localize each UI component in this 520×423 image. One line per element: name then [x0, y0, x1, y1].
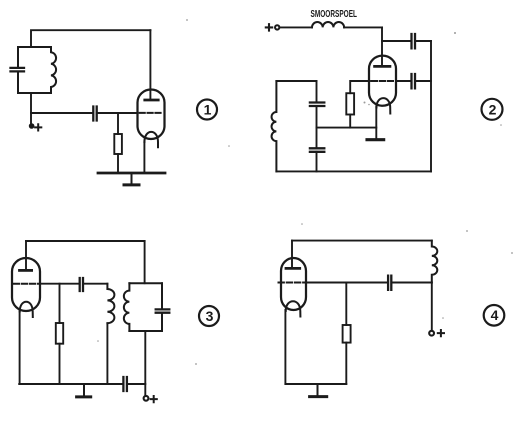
- wire: grid resistor bottom lead: [345, 343, 347, 384]
- series capacitor C9 plates: [123, 377, 127, 391]
- wire: capacitor to primary coil: [83, 283, 107, 285]
- wire: cathode lead to bottom rail: [284, 310, 286, 384]
- anode plate bar V1: [145, 99, 158, 102]
- tank right side upper: [316, 81, 318, 102]
- wire: grid to coupling capacitor: [306, 282, 388, 284]
- ground symbol (circuit 3): [83, 384, 85, 396]
- tank bottom edge: [18, 92, 51, 94]
- wire: terminal to choke: [279, 26, 312, 28]
- grid resistor R3: [56, 323, 63, 344]
- wire: tank bottom feed to terminal: [144, 331, 146, 395]
- tank capacitor C8 plates: [156, 309, 170, 312]
- wire: grid to coupling capacitor: [40, 283, 79, 285]
- plus sign: [35, 124, 41, 130]
- cathode arc V1: [144, 132, 158, 147]
- wire: cathode lead to bottom rail: [19, 311, 21, 385]
- grid resistor R2: [346, 93, 354, 114]
- svg-text:3: 3: [206, 308, 214, 324]
- wire: anode lead V2: [381, 27, 383, 66]
- grid dashed line V4: [279, 282, 311, 284]
- wire: capacitor to grid V1: [97, 112, 138, 114]
- wire: grid resistor bottom lead: [59, 344, 61, 384]
- tank capacitor C6 plates: [310, 148, 324, 152]
- tank capacitor C1 plates: [11, 68, 25, 72]
- grid dashed line V2: [372, 80, 395, 82]
- wire: anode lead V1: [149, 30, 151, 99]
- grid dashed line V3: [14, 283, 39, 285]
- label: circled 2: [482, 99, 503, 120]
- wire: grid to resistor branch: [350, 81, 370, 93]
- wire: grid resistor top lead: [117, 113, 119, 134]
- node: output terminal circle: [144, 396, 149, 401]
- node: output terminal circle: [429, 331, 434, 336]
- secondary tank bottom edge: [129, 330, 162, 332]
- wire: primary coil to bottom rail: [106, 323, 108, 384]
- coupling capacitor C10 plates: [388, 276, 391, 290]
- wire: resistor bottom lead: [349, 115, 351, 128]
- wire: capacitor to coil bottom: [392, 282, 432, 284]
- wire: bottom rail (circuit 4): [285, 383, 346, 385]
- triode envelope V1: [138, 90, 165, 140]
- wire: tank tap to cathode: [317, 127, 377, 129]
- wire: grid resistor bottom lead: [117, 154, 119, 173]
- wire: anode lead V3: [25, 241, 27, 270]
- tank coil L1 (right side bumps): [51, 47, 56, 93]
- svg-text:2: 2: [489, 101, 497, 117]
- cathode arc V2: [376, 98, 390, 113]
- anode plate bar V3: [20, 269, 32, 272]
- tank left edge (broken by capacitor): [17, 47, 19, 93]
- plus sign (supply +): [266, 24, 272, 30]
- anode plate bar V2: [375, 65, 390, 68]
- wire: bottom rail right part: [127, 383, 145, 385]
- wire: capacitor to right rail: [415, 40, 431, 42]
- ground symbol (circuit 2): [367, 138, 384, 141]
- wire: cathode lead to ground: [375, 107, 377, 139]
- feedback coil L6: [432, 241, 438, 283]
- plus sign: [438, 330, 444, 336]
- secondary tank right side (broken by capacitor): [161, 283, 163, 331]
- grid resistor R1: [114, 134, 122, 154]
- tank top edge (circuit 2): [276, 80, 316, 82]
- capacitor C3 (anode) plates: [412, 34, 416, 48]
- wire: coil junction down to terminal: [431, 283, 433, 331]
- wire: battery stub: [30, 113, 32, 123]
- wire: top rail (circuit 4): [292, 240, 432, 242]
- wire: choke to anode corner: [344, 26, 382, 28]
- wire: grid to right capacitor: [396, 80, 411, 82]
- primary coil L4: [107, 284, 114, 324]
- wire: bottom rail left part: [19, 383, 122, 385]
- wire: tank bottom to grid node: [30, 93, 32, 113]
- secondary tank top edge: [129, 282, 162, 284]
- label: circled 1: [197, 100, 217, 120]
- wire: grid resistor top lead: [345, 283, 347, 326]
- choke coil L2: [312, 22, 344, 27]
- tank right side lower: [316, 152, 318, 172]
- wire: anode lead V4: [291, 241, 293, 268]
- node: supply terminal circle: [275, 25, 279, 29]
- triode envelope V3: [12, 258, 40, 311]
- wire: cathode lead to ground: [143, 141, 145, 173]
- coupling capacitor C2 plates: [93, 107, 96, 121]
- tank coil L3 (left side bumps): [272, 81, 277, 171]
- svg-text:1: 1: [204, 101, 212, 117]
- wire: branch to top capacitor: [382, 40, 411, 42]
- paper specks (scan noise): [97, 19, 513, 365]
- wire: grid node to coupling capacitor: [31, 112, 93, 114]
- node: battery terminal dot: [29, 123, 35, 129]
- tank top edge: [18, 46, 51, 48]
- label: circled 4: [484, 305, 505, 326]
- wire: grid resistor top lead: [59, 284, 61, 323]
- coupling capacitor C7 plates: [80, 278, 83, 291]
- svg-text:4: 4: [491, 307, 499, 323]
- anode plate bar V4: [286, 267, 300, 270]
- wire: feed down to secondary tank: [144, 241, 146, 283]
- tank capacitor C5 plates: [310, 103, 324, 107]
- wire: capacitor to right rail: [415, 80, 431, 82]
- plus sign: [151, 396, 157, 402]
- cathode arc V3: [20, 302, 33, 317]
- wire: top rail to transformer: [26, 240, 145, 242]
- cathode arc V4: [286, 301, 301, 316]
- wire: tank top to anode top rail: [31, 30, 150, 47]
- tank right side middle: [316, 106, 318, 148]
- svg-text:SMOORSPOEL: SMOORSPOEL: [311, 9, 358, 20]
- grid dashed line V1: [140, 112, 161, 114]
- label: circled 3: [199, 306, 219, 326]
- wire: right rail (circuit 2): [430, 41, 432, 171]
- wire: bottom rail (circuit 2): [276, 170, 431, 172]
- ground symbol (circuit 4): [317, 384, 319, 396]
- triode envelope V4: [281, 258, 306, 310]
- ground symbol (circuit 1): [98, 172, 165, 175]
- secondary coil L5 (left side bumps): [124, 283, 130, 331]
- triode envelope V2: [369, 56, 396, 106]
- grid resistor R4: [343, 325, 351, 343]
- capacitor C4 (grid) plates: [412, 74, 416, 88]
